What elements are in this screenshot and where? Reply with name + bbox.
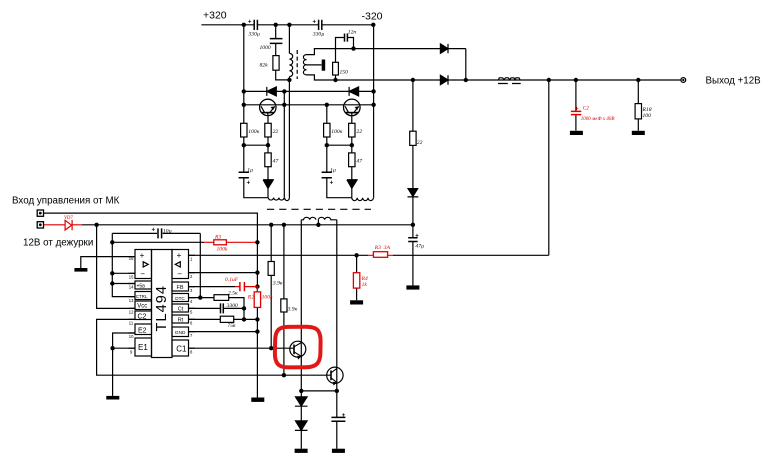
- svg-text:100k: 100k: [262, 294, 273, 300]
- svg-text:1000 мкФ х 40В: 1000 мкФ х 40В: [581, 117, 615, 122]
- svg-text:82k: 82k: [260, 63, 269, 69]
- svg-text:0.1uF: 0.1uF: [225, 277, 239, 283]
- svg-text:+: +: [152, 228, 156, 234]
- svg-text:10µ: 10µ: [163, 228, 172, 234]
- svg-text:10: 10: [129, 334, 134, 339]
- svg-text:C2: C2: [138, 313, 147, 320]
- svg-text:Vcc: Vcc: [137, 304, 147, 310]
- svg-text:22: 22: [417, 140, 423, 146]
- svg-text:13: 13: [129, 298, 134, 303]
- svg-text:3.9к: 3.9к: [272, 280, 283, 286]
- svg-text:47: 47: [356, 159, 362, 165]
- svg-text:+: +: [415, 233, 419, 239]
- svg-text:VD7: VD7: [64, 216, 73, 221]
- svg-text:+320: +320: [203, 10, 227, 22]
- svg-text:100к: 100к: [248, 129, 259, 135]
- svg-text:Выход +12В: Выход +12В: [706, 75, 762, 86]
- svg-text:E2: E2: [138, 327, 147, 334]
- svg-text:12n: 12n: [348, 30, 357, 36]
- svg-text:FB: FB: [177, 285, 184, 291]
- svg-text:-320: -320: [362, 11, 383, 23]
- svg-text:TL494: TL494: [154, 285, 170, 332]
- svg-text:14: 14: [129, 285, 134, 290]
- svg-text:2.5к: 2.5к: [228, 291, 238, 297]
- svg-text:+: +: [248, 20, 252, 26]
- svg-text:3300: 3300: [226, 303, 238, 309]
- svg-text:12В от дежурки: 12В от дежурки: [23, 237, 93, 248]
- svg-text:+: +: [140, 251, 145, 260]
- svg-text:330µ: 330µ: [312, 32, 325, 38]
- svg-text:330µ: 330µ: [248, 32, 261, 38]
- svg-text:1k: 1k: [362, 282, 368, 288]
- svg-text:Rt: Rt: [178, 317, 184, 323]
- svg-text:+: +: [575, 107, 579, 113]
- svg-text:12: 12: [129, 310, 134, 315]
- svg-text:+: +: [330, 181, 334, 187]
- svg-text:11: 11: [129, 321, 134, 326]
- svg-text:+: +: [247, 181, 251, 187]
- svg-text:1µ: 1µ: [330, 168, 336, 174]
- svg-text:100: 100: [643, 113, 652, 119]
- svg-text:150: 150: [340, 70, 349, 76]
- svg-text:22: 22: [356, 129, 362, 135]
- svg-text:DTC: DTC: [175, 296, 185, 301]
- svg-text:CTRL: CTRL: [136, 294, 148, 299]
- svg-text:47: 47: [273, 159, 279, 165]
- svg-text:E1: E1: [138, 343, 148, 352]
- svg-text:1000: 1000: [260, 45, 271, 51]
- svg-text:1µ: 1µ: [247, 168, 253, 174]
- svg-text:22: 22: [273, 129, 279, 135]
- svg-text:Ct: Ct: [178, 306, 184, 312]
- svg-text:C2: C2: [583, 105, 590, 111]
- svg-text:R2: R2: [247, 294, 254, 300]
- svg-text:+5в: +5в: [137, 284, 146, 290]
- svg-text:+: +: [313, 20, 317, 26]
- svg-text:3.9к: 3.9к: [287, 306, 298, 312]
- svg-text:75k: 75k: [227, 323, 236, 329]
- svg-text:Вход управления от МК: Вход управления от МК: [12, 195, 120, 206]
- svg-text:100к: 100к: [331, 129, 342, 135]
- svg-text:R3: R3: [214, 234, 221, 240]
- svg-text:C1: C1: [176, 345, 187, 354]
- svg-text:15: 15: [129, 275, 134, 280]
- svg-text:−: −: [140, 270, 145, 279]
- svg-text:GND: GND: [175, 330, 186, 336]
- svg-text:+: +: [177, 251, 182, 260]
- svg-text:+: +: [342, 413, 346, 419]
- svg-text:47µ: 47µ: [415, 244, 424, 250]
- svg-text:−: −: [177, 270, 182, 279]
- svg-text:16: 16: [129, 256, 134, 261]
- svg-text:100k: 100k: [217, 247, 228, 253]
- svg-text:R3 3A: R3 3A: [374, 245, 391, 251]
